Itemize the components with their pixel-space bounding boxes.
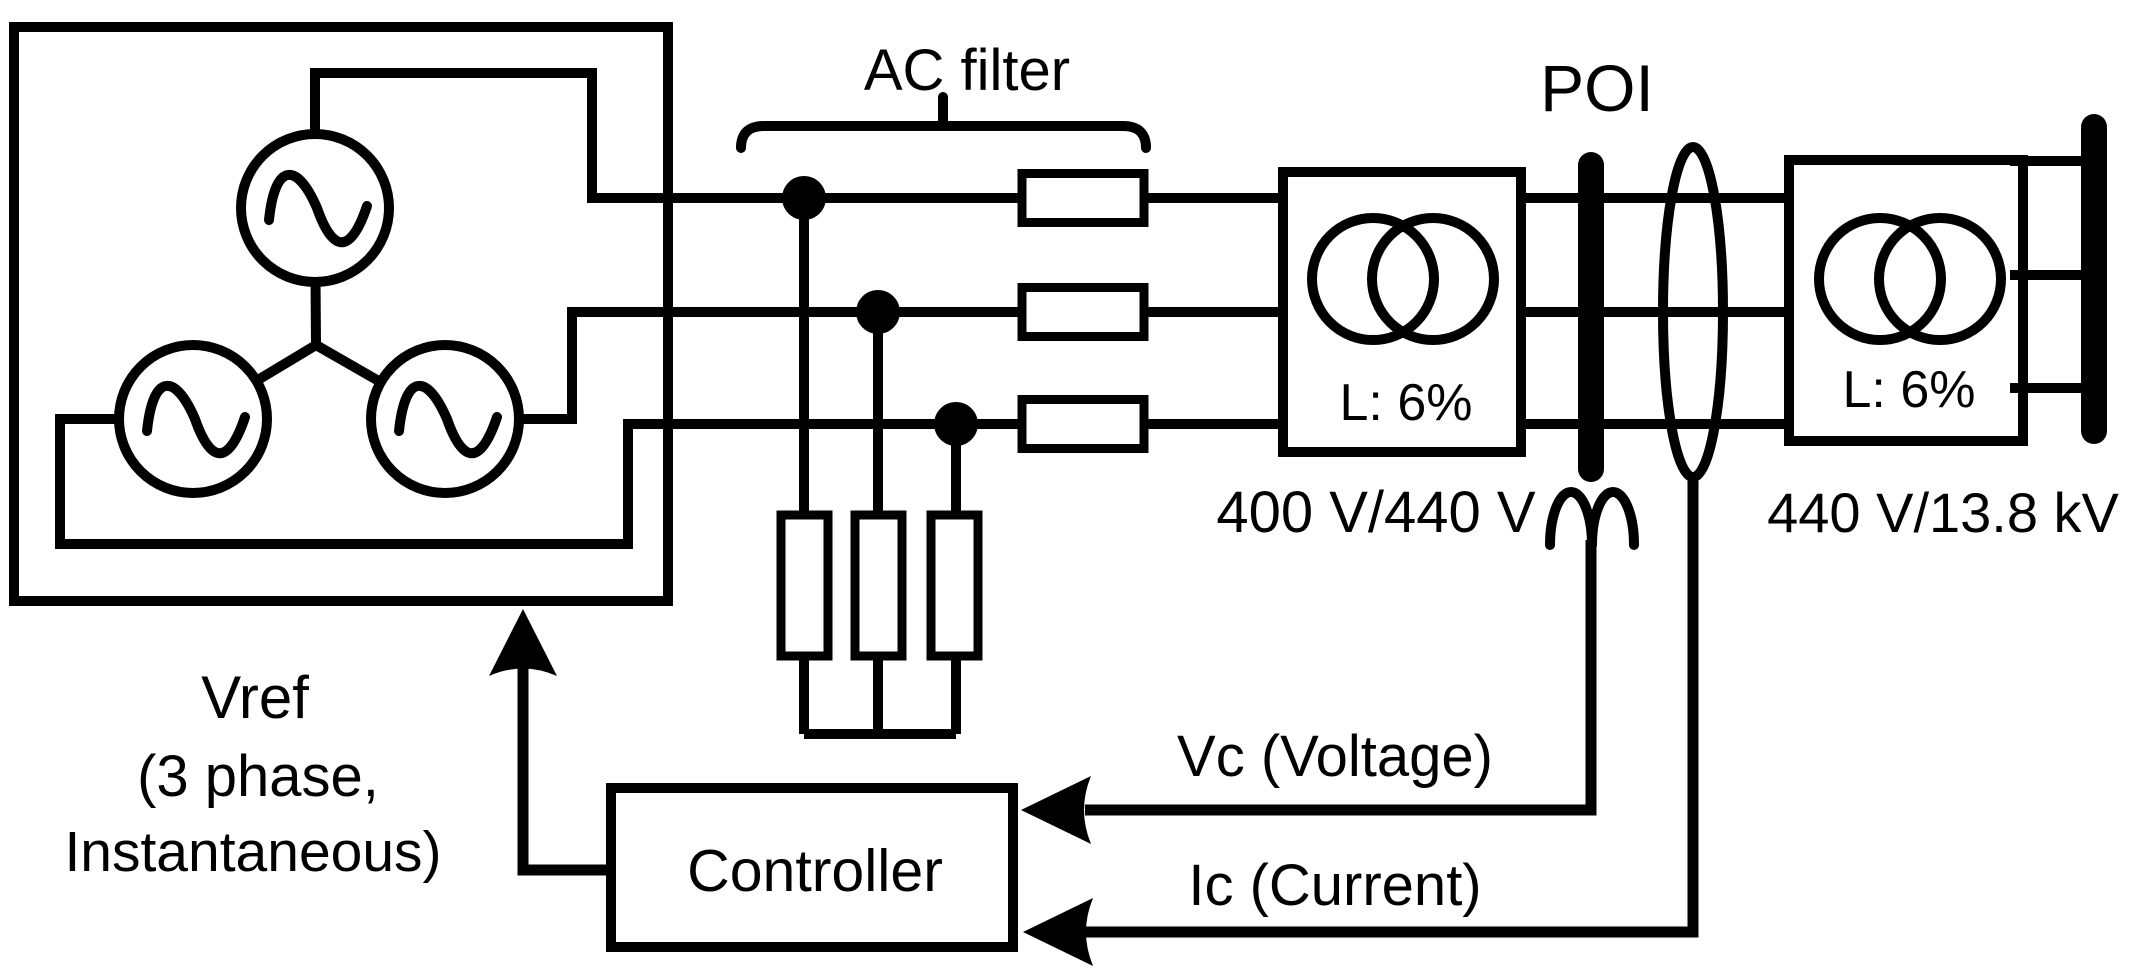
svg-text:400 V/440 V: 400 V/440 V (1216, 480, 1536, 545)
svg-text:Vref: Vref (201, 664, 309, 731)
series filter element phase A (1022, 174, 1144, 223)
svg-text:AC filter: AC filter (864, 38, 1070, 103)
svg-text:L: 6%: L: 6% (1340, 374, 1473, 432)
grid bus bar (2081, 114, 2107, 444)
transformer T2 winding 1 (1819, 218, 1941, 340)
POI bus bar (1578, 152, 1604, 482)
shunt filter element phase A (781, 515, 828, 656)
series filter element phase B (1022, 288, 1144, 337)
grid bus stub wires (2010, 161, 2094, 388)
shunt branch wire phase A (799, 198, 809, 734)
series filter element phase C (1022, 400, 1144, 449)
POI bus wires phase C (1526, 419, 1784, 429)
Ic arrowhead (1023, 898, 1093, 966)
controller box (611, 788, 1013, 947)
POI bus wires phase A (1526, 193, 1784, 203)
current measurement ellipse (1663, 147, 1723, 477)
Vc arrowhead (1021, 776, 1091, 844)
voltage tap CT symbol (1550, 492, 1634, 545)
node C junction dot (934, 402, 978, 446)
shunt filter element phase C (931, 515, 978, 656)
svg-text:Controller: Controller (687, 838, 943, 904)
svg-text:Vc (Voltage): Vc (Voltage) (1177, 724, 1493, 789)
wire phase B from source (445, 312, 1278, 419)
shunt branch wire phase C (951, 424, 961, 734)
shunt filter element phase B (855, 515, 902, 656)
svg-text:(3 phase,: (3 phase, (137, 744, 379, 809)
Ic signal wire (1085, 478, 1693, 932)
sine mark VB (147, 386, 245, 453)
transformer T1 winding 2 (1372, 218, 1494, 340)
POI bus wires phase B (1526, 307, 1784, 317)
svg-text:L: 6%: L: 6% (1843, 361, 1976, 419)
transformer T2 winding 2 (1879, 218, 2001, 340)
AC source VC (right) (371, 345, 519, 493)
AC filter brace (741, 97, 1146, 148)
Vc signal wire (1085, 540, 1591, 810)
Vref arrowhead (489, 609, 557, 676)
sine mark VA (269, 175, 367, 242)
wye junction wires (193, 208, 445, 419)
Vref feedback wire (523, 668, 611, 870)
sine mark VC (399, 386, 497, 453)
svg-text:Instantaneous): Instantaneous) (64, 820, 441, 884)
node B junction dot (856, 290, 900, 334)
node A junction dot (782, 176, 826, 220)
transformer T1 winding 1 (1312, 218, 1434, 340)
transformer T1 box (1283, 172, 1521, 452)
shunt branch wire phase B (873, 312, 883, 734)
AC source VB (left) (119, 345, 267, 493)
transformer T2 box (1789, 160, 2023, 441)
source enclosure box (14, 27, 668, 601)
wire phase A from source (315, 73, 1278, 208)
AC source VA (top) (241, 134, 389, 282)
svg-text:Ic (Current): Ic (Current) (1188, 853, 1481, 918)
svg-text:POI: POI (1540, 51, 1654, 125)
filter common wire (804, 729, 956, 739)
wire phase C from source (60, 419, 1278, 544)
svg-text:440 V/13.8 kV: 440 V/13.8 kV (1767, 481, 2119, 544)
